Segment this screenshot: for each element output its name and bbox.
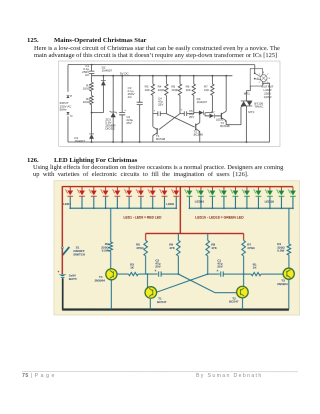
wire bottom ground rail black: [62, 308, 289, 310]
wire T4 emitter to ground: [110, 279, 112, 309]
wire T3 collector up: [288, 255, 290, 268]
red LED 7: [140, 187, 142, 191]
wire C2 to bottom rail: [121, 115, 123, 142]
svg-text:+: +: [217, 269, 219, 273]
capacitor C5: [184, 111, 186, 116]
svg-text:LED10: LED10: [195, 199, 205, 203]
paragraph 125: [34, 45, 296, 59]
svg-text:LED18: LED18: [265, 199, 275, 203]
wire node to D2: [102, 76, 104, 81]
wire cross coupling B: [159, 114, 180, 130]
triac BT136: [241, 101, 252, 106]
node R2 bottom junction: [91, 112, 93, 114]
resistor R1: [90, 82, 93, 91]
diode D1: [89, 134, 94, 139]
wire positive top rail red: [63, 186, 293, 188]
wire C1 to R1: [91, 74, 93, 83]
node green bus junction: [189, 207, 191, 209]
node red bus junction: [105, 207, 107, 209]
green LED 10: [188, 187, 190, 191]
svg-text:47K: 47K: [169, 246, 175, 250]
transistor T1: [156, 128, 158, 134]
red LED 9: [163, 187, 165, 191]
wire 5V DC rail: [92, 75, 233, 77]
wire bottom rail: [68, 141, 270, 143]
terminal P: [66, 95, 69, 98]
green LED 19: [292, 187, 294, 191]
wire zener to bottom rail: [112, 117, 114, 142]
wire D1 to bottom rail: [91, 139, 93, 143]
capacitor C1: [89, 71, 95, 73]
wire green LED cathode bus: [189, 207, 293, 209]
wire R1 to T3 base: [261, 273, 284, 275]
svg-text:BC547: BC547: [157, 300, 167, 304]
red LED 8: [152, 187, 154, 191]
lamp symbol: [260, 75, 267, 82]
wire C2 to R6 node: [161, 273, 179, 275]
wire R3 to T1 node: [138, 273, 147, 275]
capacitor C1: [221, 271, 224, 276]
wire red drop right: [243, 233, 245, 240]
node R6 bottom: [177, 273, 179, 275]
wire C1 to R7 node: [223, 273, 243, 275]
wire R4 top: [165, 76, 167, 84]
diode D3: [199, 110, 204, 114]
wire red distribution bus: [146, 232, 244, 234]
resistor R4: [165, 84, 168, 95]
wire R8 to C1: [208, 273, 220, 275]
transistor T3: [283, 268, 294, 279]
svg-text:47K: 47K: [211, 246, 217, 250]
wire R2 to T4: [110, 252, 112, 269]
svg-text:0.5W: 0.5W: [102, 248, 109, 252]
node top rail column A: [91, 64, 93, 66]
wire T1 emitter to ground: [149, 299, 151, 310]
wire MT2 to bottom rail: [245, 106, 247, 142]
wire cross coupling A: [166, 114, 194, 127]
wire T1 collector: [146, 274, 148, 288]
node green bus junction: [246, 207, 248, 209]
wire R7 column down: [211, 95, 213, 112]
svg-text:LED1: LED1: [63, 202, 71, 206]
resistor R6: [177, 240, 181, 256]
capacitor C2: [159, 271, 162, 276]
wire R2 to D1: [91, 105, 93, 134]
node T3 collector top: [225, 75, 227, 77]
node green bus junction: [258, 207, 260, 209]
wire zener column top: [112, 76, 114, 112]
resistor R3: [129, 272, 139, 275]
wire green bus to R4: [288, 208, 290, 244]
node D1 bottom: [91, 141, 93, 143]
node C3 bottom: [139, 141, 141, 143]
section heading 126: [27, 157, 39, 164]
svg-text:BC547: BC547: [229, 300, 239, 304]
wire red LED cathode bus: [70, 207, 176, 209]
wire red bus drop to R2: [110, 208, 112, 242]
terminal N: [66, 112, 69, 115]
green LED 13: [223, 187, 225, 191]
green LED 18: [280, 187, 282, 191]
node C2 bottom: [121, 141, 123, 143]
node R7 top: [211, 75, 213, 77]
resistor R3: [151, 84, 154, 95]
wire R6 R8 segment: [178, 256, 207, 274]
transistor T4: [106, 269, 117, 280]
wire R7 top: [211, 76, 213, 84]
wire T2 emitter to ground: [241, 297, 243, 309]
wire cross coupling right: [156, 274, 207, 292]
node green bus junction: [235, 207, 237, 209]
node red bus junction: [164, 207, 166, 209]
node red bus junction: [69, 207, 71, 209]
wire red drop R8: [207, 233, 209, 240]
red LED 6: [128, 187, 130, 191]
wire top mains rail: [68, 64, 255, 66]
svg-text:470Ω: 470Ω: [136, 246, 144, 250]
node red bus junction: [116, 207, 118, 209]
svg-text:25V: 25V: [155, 265, 160, 269]
wire R6 top: [193, 76, 195, 84]
resistor R4: [287, 244, 291, 255]
resistor R2: [109, 242, 113, 252]
wire LED1 link: [205, 113, 221, 116]
footer author: [196, 373, 263, 379]
wire T4 base link: [116, 273, 128, 275]
wire R3 top: [152, 76, 154, 84]
wire switch to battery red: [61, 249, 63, 275]
wire C5 link: [180, 113, 194, 115]
svg-text:+: +: [155, 269, 157, 273]
node red bus junction: [128, 207, 130, 209]
transistor T2: [237, 286, 249, 298]
wire red riser: [179, 187, 181, 234]
svg-text:BATT.: BATT.: [69, 277, 77, 281]
svg-text:470Ω: 470Ω: [247, 246, 255, 250]
red LED 1: [69, 187, 71, 191]
wire cross coupling left: [178, 274, 236, 293]
resistor R2: [90, 96, 93, 105]
wire R3 column down: [152, 95, 154, 126]
svg-text:LED1 - LED9 = RED LED: LED1 - LED9 = RED LED: [123, 215, 162, 219]
lamp box: [250, 69, 262, 87]
node green bus junction: [200, 207, 202, 209]
red LED 3: [93, 187, 95, 191]
node D2 top: [102, 75, 104, 77]
wire lamp to MT1: [246, 86, 250, 101]
svg-text:+: +: [58, 270, 60, 274]
red LED 2: [81, 187, 83, 191]
wire D3 link: [194, 112, 213, 114]
resistor R7: [242, 240, 246, 256]
wire R5 column down: [179, 95, 181, 113]
paragraph 126: [33, 164, 297, 178]
red LED 5: [116, 187, 118, 191]
lamp terminals: [254, 72, 256, 74]
node R3 top: [152, 75, 154, 77]
node R6 top: [193, 75, 195, 77]
svg-text:0.5W: 0.5W: [277, 248, 284, 252]
transistor T2: [195, 124, 197, 130]
wire astable base line left: [146, 256, 158, 274]
svg-text:LED10 - LED18 = GREEN LED: LED10 - LED18 = GREEN LED: [195, 215, 244, 219]
footer page number: [22, 373, 55, 379]
wire D2 to junction: [92, 85, 104, 112]
node T1 collector top: [147, 273, 149, 275]
resistor R8: [206, 240, 210, 256]
resistor R5: [144, 240, 148, 256]
node green bus junction: [281, 207, 283, 209]
node C2 top: [121, 75, 123, 77]
zener diode ZD1: [111, 112, 116, 117]
svg-text:2N3904: 2N3904: [95, 278, 106, 282]
node red bus junction: [93, 207, 95, 209]
svg-text:SWITCH: SWITCH: [73, 253, 85, 257]
wire battery to ground black: [62, 279, 64, 310]
resistor R5: [178, 84, 181, 95]
diode D2: [101, 81, 106, 86]
resistor R7: [211, 84, 214, 95]
capacitor C4: [158, 111, 160, 116]
node R8 bottom: [207, 273, 209, 275]
capacitor C2 electrolytic: [119, 112, 125, 114]
resistor R1: [251, 272, 261, 275]
svg-text:25V: 25V: [217, 265, 222, 269]
wire top rail to lamp: [254, 65, 256, 69]
battery BATT: [59, 274, 67, 276]
node R4 top: [165, 75, 167, 77]
wire input neutral column: [67, 116, 69, 142]
transistor T3: [220, 113, 222, 119]
green LED 15: [246, 187, 248, 191]
svg-text:LED9: LED9: [166, 202, 174, 206]
green LED 16: [257, 187, 259, 191]
green LED 11: [200, 187, 202, 191]
footer rule: [22, 370, 298, 373]
green LED 17: [269, 187, 271, 191]
node green bus junction: [212, 207, 214, 209]
node zener bottom: [112, 141, 114, 143]
node green bus junction: [269, 207, 271, 209]
wire T3 emitter to ground: [288, 279, 290, 310]
node green bus junction: [223, 207, 225, 209]
transistor T1: [145, 287, 157, 299]
wire R6 column down: [193, 95, 195, 113]
led LED1: [209, 114, 214, 118]
wire lamp return: [263, 83, 270, 142]
node R7 column base: [243, 273, 245, 275]
node R5 top: [179, 75, 181, 77]
red LED 4: [105, 187, 107, 191]
wire C3 column top: [139, 76, 141, 102]
wire R4 column down: [165, 95, 167, 113]
node red bus junction: [175, 207, 177, 209]
switch S1: [61, 247, 63, 249]
circuit 2 background: [54, 181, 300, 315]
green LED 12: [211, 187, 213, 191]
wire C2 column top: [121, 76, 123, 113]
wire R7 to T2 collector: [243, 256, 245, 287]
wire C3 to bottom rail: [139, 105, 141, 142]
node C3 top: [139, 75, 141, 77]
wire R1 to R2: [91, 91, 93, 95]
circuit 1 border frame: [59, 61, 280, 146]
wire T3 emitter to gate: [226, 106, 243, 125]
node green bus junction: [292, 207, 294, 209]
node red bus junction: [140, 207, 142, 209]
green LED 14: [234, 187, 236, 191]
section heading 125: [27, 37, 39, 44]
node MT2 bottom: [246, 141, 248, 143]
node red bus junction: [81, 207, 83, 209]
resistor R6: [192, 84, 195, 95]
capacitor C3: [137, 102, 143, 104]
wire positive left rail red upper: [61, 186, 63, 247]
wire red drop R6: [177, 233, 179, 240]
wire C4 link: [153, 113, 167, 115]
node red bus junction: [152, 207, 154, 209]
wire R7 node to R1: [244, 273, 252, 275]
node zener top: [112, 75, 114, 77]
red LED 10: [175, 187, 177, 191]
wire R5 top: [179, 76, 181, 84]
wire red drop left: [145, 233, 147, 240]
wire column A top: [91, 65, 93, 71]
wire input live column: [67, 65, 69, 92]
svg-text:2N3904: 2N3904: [277, 282, 288, 286]
